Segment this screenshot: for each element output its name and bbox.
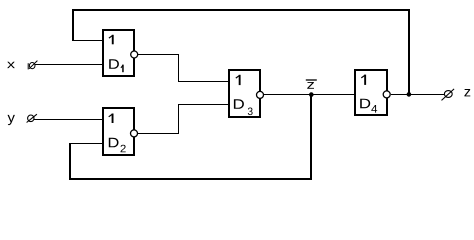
wire D1 output to D3 top input	[138, 54, 179, 56]
D3 OR label 1	[239, 75, 241, 85]
label y	[8, 115, 15, 125]
designator D2	[109, 138, 119, 148]
D4 inversion bubble	[383, 91, 390, 98]
wire top feedback right vertical	[408, 9, 410, 95]
label z	[464, 89, 470, 96]
wire D2 output to D3 bottom input	[138, 133, 179, 135]
wire into D1 top input	[72, 40, 103, 42]
wire D4 output to z	[391, 94, 444, 96]
D4 OR label 1	[364, 75, 366, 85]
gate D1	[103, 30, 138, 76]
designator D1	[109, 59, 119, 69]
wire zbar feedback to D2 bottom input	[69, 143, 103, 145]
D1 OR label 1	[112, 35, 114, 45]
D1 inversion bubble	[131, 51, 138, 58]
D3 inversion bubble	[257, 91, 264, 98]
junction node z	[407, 92, 412, 97]
wire bottom feedback horizontal	[69, 178, 312, 180]
input connector y	[27, 114, 37, 122]
junction node zbar	[309, 92, 314, 97]
designator D4	[360, 99, 370, 109]
label x	[7, 62, 15, 68]
wire bottom feedback left vertical	[69, 143, 71, 180]
wire zbar rail D3 to D4	[264, 94, 355, 96]
gate D4	[355, 70, 390, 115]
wire x input to D1	[35, 64, 103, 66]
gate D3	[229, 70, 264, 117]
wire y input to D2	[34, 119, 103, 121]
output connector z	[442, 89, 455, 101]
input connector x	[28, 61, 37, 70]
designator D3	[234, 99, 244, 109]
wire zbar feedback vertical	[310, 94, 312, 180]
gate D2	[103, 108, 138, 155]
wire top feedback horizontal	[72, 9, 410, 11]
label zbar with overline	[306, 80, 317, 89]
wire top feedback left vertical	[72, 9, 74, 41]
D2 inversion bubble	[131, 130, 138, 137]
D2 OR label 1	[112, 114, 114, 124]
